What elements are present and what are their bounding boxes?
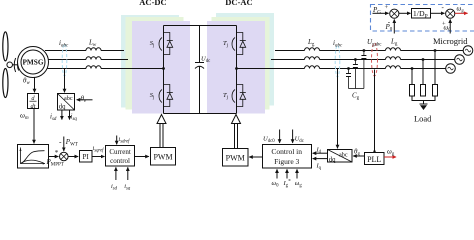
PWM block 1	[151, 148, 176, 166]
control block Figure 3	[263, 145, 312, 169]
node load tap c	[411, 67, 414, 70]
AC-DC converter layer mid (green)	[126, 17, 184, 110]
svg-text:abc: abc	[64, 95, 73, 102]
wind turbine blade top	[3, 32, 8, 61]
svg-text:PWM: PWM	[153, 152, 172, 161]
PWM1 gate drive hollow arrow	[157, 115, 166, 148]
wire current control to PWM1	[135, 156, 149, 158]
load resistor a wire	[434, 51, 436, 85]
wire P_WT input	[63, 137, 65, 151]
wire theta_e input	[77, 99, 93, 101]
wire current sensor to abc/dq	[64, 69, 66, 93]
wire I_q input	[313, 158, 327, 160]
svg-text:AC-DC: AC-DC	[139, 0, 166, 7]
inductor Lw phase c	[86, 66, 101, 69]
phase line top right	[275, 50, 463, 52]
IGBT S1 with diode (AC-DC top)	[150, 33, 173, 55]
DC-AC converter layer mid (green)	[212, 17, 270, 110]
DC bus bottom rail	[164, 113, 237, 115]
svg-text:control: control	[110, 157, 130, 165]
wire omega_g droop output (red)	[455, 12, 468, 14]
wire omega_0 input	[276, 169, 278, 178]
abc/dq transform block left	[58, 94, 75, 111]
inductor Lg1 phase c	[305, 66, 320, 69]
AC-DC converter layer back (cyan)	[121, 15, 179, 108]
wire Ig* input	[286, 169, 288, 178]
wire grid current sensor to dq	[337, 69, 339, 149]
resistor load c	[410, 85, 415, 97]
wire PI to current control	[92, 156, 105, 158]
svg-text:PWM: PWM	[226, 153, 245, 162]
svg-text:PLL: PLL	[367, 155, 381, 164]
AC source a	[463, 46, 473, 56]
wire PLL to dq	[353, 155, 364, 157]
inductor Lw phase a	[86, 48, 101, 51]
phase line middle left	[49, 59, 129, 61]
wire Cg common	[349, 88, 364, 90]
wire P_G input	[373, 12, 389, 14]
wire PMSG to d/dt	[34, 78, 36, 93]
block 1/Dp	[412, 9, 431, 19]
PMSG generator inner circle	[21, 50, 45, 74]
svg-text:DC-AC: DC-AC	[225, 0, 252, 7]
DC link capacitor wire	[199, 26, 201, 63]
svg-text:Microgrid: Microgrid	[433, 36, 468, 46]
wire control to PWM2	[249, 156, 262, 158]
node Cg tap b	[354, 58, 357, 61]
AC source b	[455, 55, 465, 65]
svg-text:Control in: Control in	[271, 147, 302, 156]
summing junction wind power	[60, 152, 69, 161]
wire i_sq output	[69, 110, 71, 120]
wire j1 to 1/Dp	[399, 12, 411, 14]
svg-text:Current: Current	[109, 148, 130, 156]
resistor load b	[421, 85, 426, 97]
svg-text:dt: dt	[31, 103, 36, 110]
d/dt block	[28, 94, 39, 109]
wire omega_g output (red)	[384, 156, 396, 158]
summing junction droop 1	[390, 9, 399, 18]
svg-text:dq: dq	[59, 103, 66, 110]
wire 1/Dp to j2	[431, 12, 445, 14]
node load tap b	[422, 58, 425, 61]
DC-AC converter layer front (purple)	[207, 21, 265, 114]
node Cg tap a	[363, 49, 366, 52]
node Cg tap c	[347, 67, 350, 70]
node PLL input	[373, 150, 375, 152]
current control block	[106, 146, 135, 167]
shaft	[13, 64, 19, 66]
DC-AC converter layer back (cyan)	[216, 13, 274, 106]
coupling arc 1	[14, 58, 15, 72]
abc/dq transform block right	[328, 150, 353, 164]
coupling arc 2	[18, 60, 19, 71]
capacitor Udc plates	[195, 62, 204, 64]
wire P_0 input	[393, 20, 395, 34]
svg-text:Figure 3: Figure 3	[274, 157, 299, 166]
svg-text:PMSG: PMSG	[22, 58, 43, 67]
AC-DC converter layer front (purple)	[132, 21, 190, 114]
phase line middle right	[271, 59, 455, 61]
node DC-AC midpoint	[235, 67, 238, 70]
wire omega_g input	[296, 169, 298, 178]
AC source c	[446, 64, 456, 74]
filter capacitor Cg leg b	[354, 60, 356, 89]
turbine hub	[7, 62, 13, 68]
phase line bottom left	[48, 68, 164, 70]
load resistor b wire	[422, 60, 424, 85]
svg-text:dq: dq	[329, 156, 336, 163]
AC-DC leg	[163, 26, 165, 114]
wire d/dt to MPPT	[33, 109, 35, 144]
inductor Lg2 phase c	[386, 66, 401, 69]
wire i_sd output	[61, 110, 63, 120]
PWM block 2	[223, 149, 249, 167]
inductor Lg1 phase a	[305, 48, 320, 51]
wire U_dc0 input	[279, 130, 281, 143]
inductor Lw phase b	[86, 57, 101, 60]
DC-AC leg	[236, 26, 238, 114]
node AC-DC midpoint	[162, 67, 165, 70]
svg-text:abc: abc	[339, 151, 348, 158]
wind turbine blade bottom	[3, 69, 8, 98]
MPPT curve block	[18, 145, 49, 169]
PLL block	[365, 153, 385, 165]
resistor load a	[433, 85, 438, 97]
wire i_sdref input	[116, 136, 118, 145]
summing junction droop 2	[446, 9, 455, 18]
grid current sensor oval (blue dashed)	[335, 45, 340, 77]
wire i_sq input	[127, 167, 129, 180]
PWM2 gate drive hollow arrow	[232, 115, 241, 149]
filter capacitor Cg leg c	[348, 69, 350, 89]
PI block	[80, 151, 93, 163]
PMSG generator outer circle	[18, 47, 49, 78]
stator current sensor oval (blue dashed)	[62, 44, 67, 76]
load resistor c wire	[411, 69, 413, 85]
svg-text:*: *	[55, 149, 59, 157]
phase line top left	[45, 50, 124, 52]
node load tap a	[434, 49, 437, 52]
inductor Lg1 phase b	[305, 57, 320, 60]
wire omega_0 ref input	[449, 20, 451, 34]
phase line bottom right	[237, 68, 446, 70]
wire MPPT to summing junction	[49, 156, 59, 158]
IGBT T2 with diode (DC-AC bottom)	[223, 85, 246, 107]
wire U_dc input	[292, 130, 294, 143]
inductor Lg2 phase b	[386, 57, 401, 60]
svg-text:+: +	[385, 4, 389, 11]
wire junction to PI	[68, 156, 78, 158]
svg-text:Load: Load	[414, 113, 432, 123]
ground	[420, 104, 428, 110]
wire i_sd input	[115, 167, 117, 180]
IGBT S2 with diode (AC-DC bottom)	[150, 85, 173, 107]
IGBT T1 with diode (DC-AC top)	[223, 33, 246, 55]
inductor Lg2 phase a	[386, 48, 401, 51]
filter capacitor Cg leg a	[363, 51, 365, 89]
wire voltage sensor to PLL	[374, 70, 376, 153]
droop control dashed box	[371, 5, 474, 32]
load common bus	[412, 96, 435, 104]
wire I_d input	[313, 152, 327, 154]
DC bus top rail	[164, 25, 237, 27]
svg-text:PI: PI	[82, 153, 89, 161]
grid voltage sensor oval (red dashed)	[372, 43, 378, 76]
